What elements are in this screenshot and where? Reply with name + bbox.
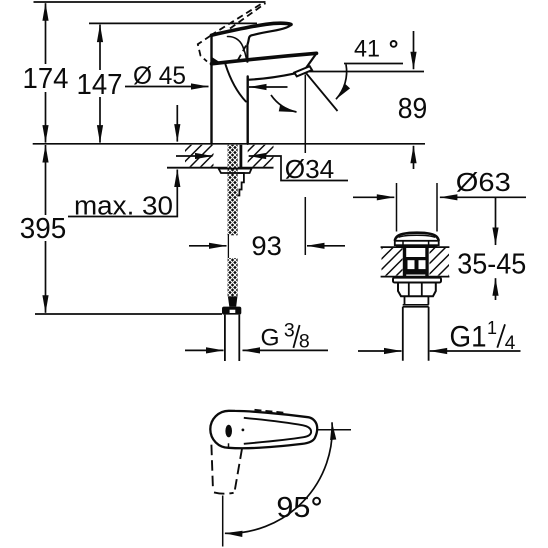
dim G3/8: [185, 349, 224, 351]
svg-text:1: 1: [487, 318, 497, 338]
handle underside: [247, 24, 291, 61]
dashed rotated handle left: [211, 445, 213, 491]
sink deck hatch left: [382, 248, 403, 276]
drain body windows: [406, 257, 428, 275]
small dot: [242, 429, 245, 432]
dashed rotated handle bottom: [214, 492, 234, 493]
dashed handle lower edge: [230, 3, 266, 28]
dim 35-45: [495, 198, 497, 245]
147 ref line: [89, 22, 257, 24]
deck hatch left of hole: [185, 145, 214, 167]
G3/8 tail tube: [225, 315, 239, 361]
handle outer outline: [210, 411, 317, 448]
locknut hex: [398, 283, 436, 297]
flex hose lower part: [228, 258, 238, 296]
drain body walls: [405, 247, 428, 276]
body left edge: [210, 35, 212, 144]
stepped fixing bracket: [238, 173, 244, 196]
stream line 41deg: [306, 73, 338, 111]
hose end cone: [228, 296, 238, 306]
svg-text:147: 147: [77, 69, 123, 101]
svg-text:3: 3: [284, 320, 295, 342]
svg-text:35-45: 35-45: [457, 248, 526, 280]
dashed rotated handle right: [235, 449, 243, 492]
logo oval: [225, 425, 232, 438]
spout tip face: [303, 53, 317, 72]
tailpipe: [403, 307, 429, 361]
washer plate: [219, 169, 252, 173]
dim Ø34 at deck: [176, 155, 213, 157]
dashed hidden edge top: [255, 410, 286, 413]
dim Ø63 ext lines: [397, 183, 438, 232]
cap neck: [397, 245, 435, 247]
bottom ref line (395): [35, 313, 222, 315]
svg-text:max. 30: max. 30: [74, 193, 173, 221]
spout underside: [248, 73, 295, 79]
svg-text:174: 174: [23, 63, 69, 95]
top ref line (174): [34, 1, 266, 3]
41 deg arc arrow: [336, 64, 347, 99]
dim max.30: [176, 105, 178, 142]
cap contact line: [396, 245, 437, 247]
dim 89: [413, 31, 415, 69]
sink deck bottom line: [381, 276, 450, 278]
svg-text:Ø 45: Ø 45: [133, 62, 186, 90]
dim G1 1/4: [358, 350, 402, 352]
spout top thick line: [212, 53, 317, 64]
svg-text:Ø34: Ø34: [285, 154, 335, 184]
spout outlet extension line: [304, 75, 306, 256]
hose edge line in gap: [227, 234, 229, 259]
drain cap dome: [395, 233, 439, 241]
body right edge: [246, 77, 248, 144]
dashed handle left outline: [198, 36, 211, 62]
svg-text:4: 4: [505, 333, 516, 354]
dim 174: [45, 3, 47, 64]
collar: [405, 296, 429, 305]
cap dome inner arc: [399, 235, 436, 237]
svg-text:8: 8: [299, 330, 310, 352]
cartridge dome arc: [228, 36, 247, 58]
dim 395: [45, 145, 47, 215]
axis tick: [228, 443, 230, 447]
svg-text:G1: G1: [450, 321, 487, 354]
deck ref line: [33, 143, 425, 145]
dim Ø63: [353, 196, 394, 198]
aerator outlet slot: [294, 66, 312, 76]
locknut flange: [393, 278, 441, 283]
left flow arc arrow: [271, 95, 297, 112]
dim 93: [189, 245, 227, 247]
svg-text:Ø63: Ø63: [456, 167, 511, 197]
svg-text:89: 89: [398, 93, 428, 125]
handle lever inner outline: [244, 418, 311, 444]
41 deg underline: [344, 63, 403, 65]
mounting stud: [239, 145, 242, 168]
deck bottom line: [167, 167, 274, 169]
body-spout fillet arc: [226, 65, 246, 102]
svg-text:G: G: [260, 324, 279, 351]
threaded shank through deck: [228, 145, 238, 236]
svg-text:41: 41: [354, 35, 380, 62]
dim 147: [99, 25, 101, 70]
95 deg horizontal ray: [318, 429, 351, 431]
cap flange ticks: [403, 241, 429, 245]
handle top thick line: [212, 23, 292, 35]
89/41 ref line at spout level: [307, 71, 424, 73]
svg-text:395: 395: [20, 213, 67, 245]
handle rear bottom wedge: [211, 57, 218, 64]
95 deg vertical ray: [222, 496, 224, 547]
hose nut: [222, 307, 241, 315]
deck hatch right of hole: [248, 145, 274, 167]
dim Ø45 leader: [125, 86, 209, 88]
dashed handle upper edge: [211, 2, 265, 36]
95 deg arc: [225, 422, 332, 533]
svg-text:93: 93: [251, 231, 282, 261]
dashed pivot arc: [236, 46, 246, 64]
sink deck top line: [381, 246, 450, 248]
drain cap flange: [395, 241, 439, 245]
sink deck hatch right: [430, 248, 450, 276]
